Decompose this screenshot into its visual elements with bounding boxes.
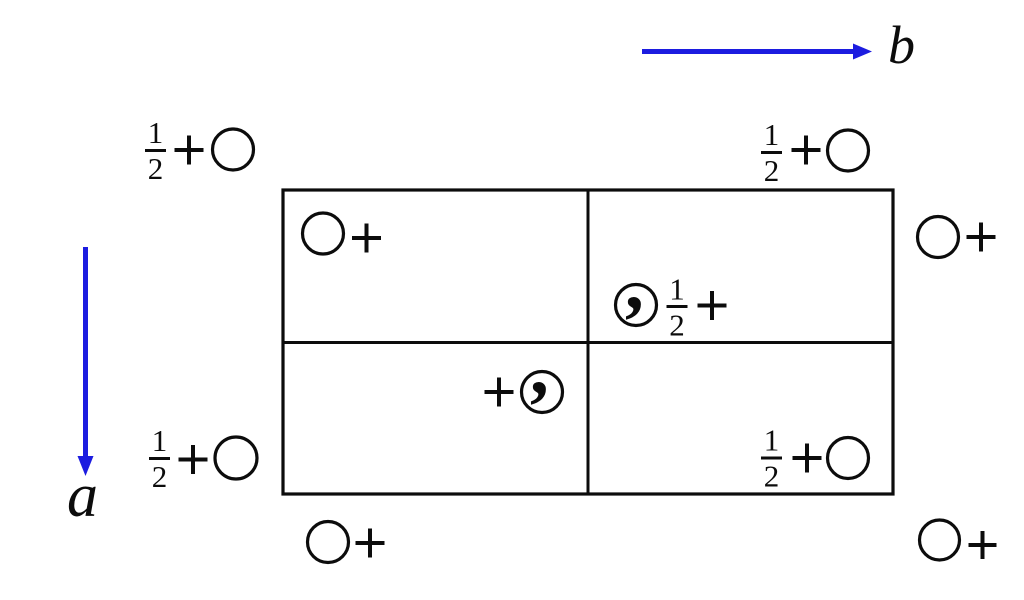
vertical divider <box>587 190 590 494</box>
svg-text:,: , <box>625 242 644 325</box>
svg-text:2: 2 <box>152 459 168 494</box>
svg-text:1: 1 <box>669 272 685 307</box>
axis arrow b (horizontal blue) <box>642 44 872 60</box>
group: half + circle (left outside, lower) <box>149 423 257 494</box>
svg-text:,: , <box>530 327 549 410</box>
svg-text:1: 1 <box>764 117 780 152</box>
group: plus + comma-circle (lower left quadrant) <box>485 327 563 413</box>
group: circle + plus (inside top-left quadrant) <box>303 213 382 254</box>
group: circle + plus (below-left outside) <box>308 522 385 563</box>
svg-text:b: b <box>888 15 915 75</box>
group: half + circle (top-right outside) <box>761 117 869 188</box>
axis arrow a (vertical blue) <box>78 247 94 476</box>
svg-text:2: 2 <box>669 308 685 343</box>
svg-text:1: 1 <box>152 423 168 458</box>
group: half + circle (top-left outside) <box>145 115 254 186</box>
svg-text:2: 2 <box>148 151 164 186</box>
svg-text:2: 2 <box>764 153 780 188</box>
group: circle + plus (outside right of cell) <box>918 217 996 258</box>
svg-text:1: 1 <box>764 423 780 458</box>
svg-text:a: a <box>67 462 98 530</box>
group: circle + plus (below-right outside) <box>920 520 997 560</box>
svg-text:1: 1 <box>148 115 164 150</box>
unit cell rectangle <box>283 190 893 494</box>
group: half + circle (inside bottom-right quadrant) <box>761 423 869 494</box>
horizontal divider <box>283 341 893 344</box>
svg-text:2: 2 <box>764 459 780 494</box>
group: comma-circle + half + plus (upper right quadrant) <box>616 242 727 343</box>
